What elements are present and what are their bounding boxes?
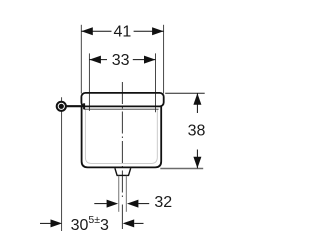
dimension 41 arrow left: [81, 27, 93, 35]
svg-text:305±3: 305±3: [71, 214, 109, 234]
dimension 38 arrow down: [193, 157, 201, 169]
svg-text:32: 32: [154, 194, 172, 211]
dimension 32 arrow left (points right at pipe): [107, 200, 119, 208]
dimension 38 arrow up: [193, 93, 201, 105]
svg-text:38: 38: [188, 122, 206, 139]
rod-lid junction: [83, 103, 85, 109]
center line (dash-dot vertical axis): [121, 82, 123, 198]
dimension 33 arrow left: [89, 56, 101, 64]
dimension 38 top extension: [165, 92, 205, 94]
dimension 33 arrow right: [144, 56, 156, 64]
dimension 33 line: [89, 59, 107, 61]
actuator rod: [65, 105, 84, 107]
dimension 30 leader right: [134, 222, 143, 224]
dimension 32 leader left: [94, 203, 107, 205]
extension line 33 right: [155, 53, 157, 112]
dimension 30+5/±3 leader left: [40, 222, 51, 224]
dimension 30 arrow left (points right): [51, 219, 63, 227]
dimension 32 leader right: [138, 203, 149, 205]
dimension 38 line: [196, 93, 198, 113]
flush valve outlet (trapezoid): [115, 168, 131, 175]
dimension 41 arrow right: [152, 27, 164, 35]
extension line 41 right: [163, 25, 165, 94]
flush pipe left wall (gray): [118, 176, 120, 212]
dimension 41 line: [81, 30, 111, 32]
extension line 41 left: [80, 25, 82, 94]
svg-text:33: 33: [112, 52, 130, 69]
svg-text:41: 41: [114, 24, 132, 41]
extension line 33 left: [88, 53, 90, 111]
flush pipe right wall (gray): [125, 176, 127, 212]
dimension 32 arrow right (points left at pipe): [127, 200, 138, 208]
actuator knob: [61, 97, 63, 231]
cistern lid: [81, 93, 163, 107]
body inner contour (faint): [85, 109, 157, 163]
lid skirt line: [84, 108, 159, 110]
dimension 30 arrow right (points left at center line): [123, 219, 135, 227]
dimension 38 bottom extension (gray wall line): [160, 168, 203, 170]
cistern body: [82, 106, 162, 168]
